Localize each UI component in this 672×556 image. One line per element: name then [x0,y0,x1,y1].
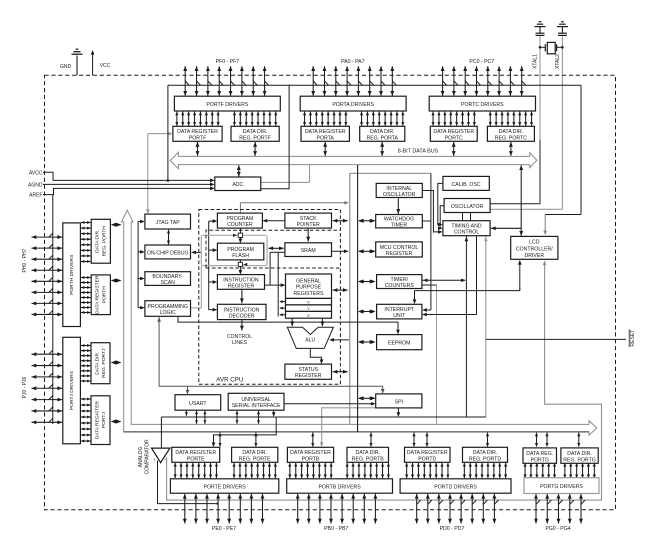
svg-text:PORTE DRIVERS: PORTE DRIVERS [203,484,246,490]
svg-text:PORTC DRIVERS: PORTC DRIVERS [461,102,504,108]
svg-text:REG. PORTE: REG. PORTE [239,456,271,462]
svg-text:PORTD DRIVERS: PORTD DRIVERS [434,484,477,490]
svg-text:DATA DIR.: DATA DIR. [499,129,524,135]
svg-text:CONTROL: CONTROL [454,230,479,236]
svg-text:REG. PORTA: REG. PORTA [366,135,398,141]
svg-text:PORTA: PORTA [317,135,335,141]
svg-text:DATA REGISTER: DATA REGISTER [290,450,331,456]
svg-text:PF0 - PF7: PF0 - PF7 [216,59,240,65]
svg-text:PC0 - PC7: PC0 - PC7 [469,59,494,65]
svg-text:REGISTER: REGISTER [386,251,413,257]
svg-text:CONTROL: CONTROL [227,334,252,340]
svg-text:DATA REGISTER: DATA REGISTER [433,129,474,135]
svg-text:DATA REGISTER: DATA REGISTER [305,129,346,135]
svg-text:GENERAL: GENERAL [296,278,321,284]
svg-text:PG0 - PG4: PG0 - PG4 [545,526,570,532]
svg-text:AREF: AREF [29,193,42,199]
svg-text:UNIT: UNIT [393,313,406,319]
svg-text:Y: Y [307,306,310,311]
svg-text:PH0 - PH7: PH0 - PH7 [22,248,28,272]
svg-text:SPI: SPI [395,399,403,405]
svg-text:XTAL1: XTAL1 [533,54,539,69]
svg-text:ADC: ADC [232,182,243,188]
svg-text:ON-CHIP DEBUG: ON-CHIP DEBUG [147,250,189,256]
svg-text:DATA DIR.: DATA DIR. [242,450,267,456]
svg-text:GND: GND [60,64,72,70]
svg-text:PORTG: PORTG [531,457,549,463]
svg-text:PORTF: PORTF [189,135,207,141]
svg-text:OSCILLATOR: OSCILLATOR [383,192,416,198]
svg-text:REG. PORTB: REG. PORTB [352,456,384,462]
svg-text:DATA DIR.: DATA DIR. [370,129,395,135]
svg-text:ALU: ALU [305,338,315,344]
svg-text:REG. PORTF: REG. PORTF [239,135,271,141]
svg-text:PA0 - PA7: PA0 - PA7 [341,59,365,65]
svg-text:PORTC: PORTC [445,135,463,141]
svg-text:USART: USART [189,401,207,407]
svg-text:LINES: LINES [232,340,248,346]
svg-text:XTAL2: XTAL2 [555,54,561,69]
svg-text:LOGIC: LOGIC [160,310,176,316]
svg-text:OSCILLATOR: OSCILLATOR [451,204,484,210]
svg-text:DATA DIR.: DATA DIR. [567,451,592,457]
svg-text:DATA DIR.: DATA DIR. [243,129,268,135]
svg-text:DECODER: DECODER [229,313,255,319]
svg-text:DATA DIR.: DATA DIR. [473,450,498,456]
svg-text:DATA REGISTER: DATA REGISTER [94,400,100,439]
svg-text:SERIAL INTERFACE: SERIAL INTERFACE [232,403,281,409]
svg-text:PORTJ: PORTJ [101,412,107,428]
svg-text:PURPOSE: PURPOSE [296,285,322,291]
svg-text:AVCC: AVCC [29,170,43,176]
svg-text:EEPROM: EEPROM [388,341,410,347]
svg-text:REG. PORTD: REG. PORTD [469,456,501,462]
svg-text:PORTD: PORTD [418,456,436,462]
svg-text:AVR CPU: AVR CPU [216,376,243,383]
svg-text:REG. PORTC: REG. PORTC [495,135,527,141]
svg-text:PORTJ DRIVERS: PORTJ DRIVERS [69,370,75,410]
svg-text:AGND: AGND [28,182,43,188]
svg-text:DATA REGISTER: DATA REGISTER [407,450,448,456]
svg-text:DATA REGISTER: DATA REGISTER [177,129,218,135]
svg-text:DRIVER: DRIVER [524,253,544,259]
svg-text:DATA DIR.: DATA DIR. [94,352,100,375]
svg-text:ANALOG: ANALOG [138,446,144,467]
svg-text:PORTB: PORTB [302,456,320,462]
svg-text:CONTROLLER/: CONTROLLER/ [516,246,553,252]
svg-text:REG. PORTJ: REG. PORTJ [101,348,107,378]
svg-text:−: − [164,457,167,462]
svg-text:LCD: LCD [529,240,540,246]
svg-text:REGISTER: REGISTER [295,373,322,379]
svg-text:PD0 - PD7: PD0 - PD7 [440,526,465,532]
svg-text:PORTB DRIVERS: PORTB DRIVERS [318,484,361,490]
svg-text:PORTH: PORTH [101,286,107,303]
svg-text:COMPARATOR: COMPARATOR [144,439,150,474]
svg-text:REG. PORTH: REG. PORTH [101,226,107,257]
svg-text:RESET: RESET [630,330,636,347]
svg-text:REGISTER: REGISTER [228,283,255,289]
svg-text:DATA DIR.: DATA DIR. [95,230,101,253]
svg-text:PB0 - PB7: PB0 - PB7 [324,526,348,532]
svg-text:DATA REGISTER: DATA REGISTER [95,275,101,314]
svg-text:DATA DIR.: DATA DIR. [355,450,380,456]
svg-text:SCAN: SCAN [160,280,175,286]
svg-text:X: X [307,300,310,305]
svg-text:8-BIT DATA BUS: 8-BIT DATA BUS [398,148,439,154]
svg-text:VCC: VCC [100,63,111,69]
svg-text:PORTF DRIVERS: PORTF DRIVERS [206,102,249,108]
svg-text:DATA REG.: DATA REG. [526,451,553,457]
svg-text:POINTER: POINTER [297,222,320,228]
svg-text:PORTH DRIVERS: PORTH DRIVERS [69,254,75,295]
svg-text:CALIB. OSC: CALIB. OSC [452,182,481,188]
svg-text:REGISTERS: REGISTERS [294,291,325,297]
svg-text:REG. PORTG: REG. PORTG [563,457,595,463]
svg-text:DATA REGISTER: DATA REGISTER [175,450,216,456]
svg-text:+: + [153,457,156,462]
svg-text:PORTA DRIVERS: PORTA DRIVERS [332,102,374,108]
svg-text:PJ0 - PJ6: PJ0 - PJ6 [22,376,28,398]
svg-text:COUNTER: COUNTER [227,222,253,228]
svg-text:PORTG DRIVERS: PORTG DRIVERS [540,484,583,490]
svg-text:COUNTERS: COUNTERS [385,283,415,289]
svg-text:PORTE: PORTE [187,456,205,462]
svg-text:SRAM: SRAM [301,248,316,254]
svg-text:TIMER: TIMER [391,223,407,229]
svg-text:JTAG TAP: JTAG TAP [156,220,180,226]
svg-text:PE0 - PE7: PE0 - PE7 [212,526,236,532]
svg-text:FLASH: FLASH [232,253,249,259]
